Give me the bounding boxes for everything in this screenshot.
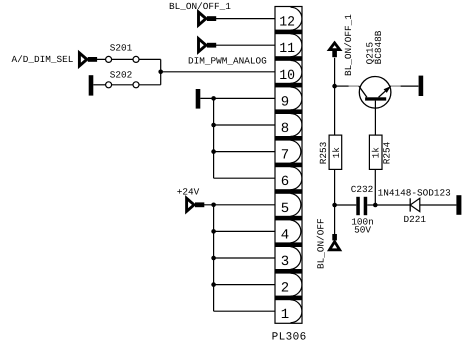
connector pin 3 <box>291 247 301 270</box>
connector pin 1 <box>291 300 302 323</box>
node junction pin7 <box>211 149 216 154</box>
node junction pin3 <box>211 256 216 261</box>
wire <box>334 58 336 86</box>
port arrow BL_ON/OFF_1 (up) <box>330 43 340 50</box>
wire <box>420 204 457 206</box>
svg-text:R254: R254 <box>381 141 392 164</box>
wire base <box>374 101 376 136</box>
rail bar emitter <box>419 76 424 96</box>
svg-text:1: 1 <box>281 307 289 323</box>
wire <box>208 18 275 20</box>
rail bar S202 <box>89 75 94 95</box>
svg-text:BL_ON/OFF_1: BL_ON/OFF_1 <box>343 14 354 76</box>
connector pin 2 <box>291 273 302 296</box>
node junction pin4 <box>211 229 216 234</box>
svg-text:R253: R253 <box>318 141 329 164</box>
wire <box>374 169 376 205</box>
wire <box>334 169 336 205</box>
node junction pin2 <box>211 282 216 287</box>
wire <box>214 284 275 286</box>
node junction to pin10 <box>158 70 163 75</box>
port arrow BL_ON/OFF_1 <box>199 12 207 25</box>
wire <box>335 85 349 87</box>
wire <box>93 84 105 86</box>
port arrow +24V <box>187 198 195 211</box>
rail bar near pin9 <box>196 89 201 109</box>
wire bus <box>213 205 215 311</box>
svg-text:S202: S202 <box>110 70 133 81</box>
wire emitter (gray segment) <box>391 85 401 87</box>
wire <box>334 86 336 135</box>
connector PL306 body <box>275 7 302 324</box>
svg-text:1k: 1k <box>370 147 381 159</box>
wire <box>334 205 336 234</box>
resistor R254 <box>369 135 382 169</box>
node junction pin5 <box>211 203 216 208</box>
wire <box>375 204 410 206</box>
svg-text:PL306: PL306 <box>272 332 307 344</box>
svg-text:11: 11 <box>279 41 295 57</box>
diode D221 <box>409 198 411 211</box>
svg-text:50V: 50V <box>354 224 371 235</box>
svg-text:6: 6 <box>281 174 289 190</box>
svg-text:4: 4 <box>281 227 289 243</box>
svg-text:9: 9 <box>281 94 289 110</box>
node junction C232 right <box>373 203 378 208</box>
rail bar diode <box>456 195 461 215</box>
connector pin 11 <box>291 34 302 57</box>
wire <box>196 204 275 206</box>
wire <box>200 97 275 99</box>
wire to pin1 <box>214 310 275 312</box>
resistor R253 <box>329 135 342 169</box>
svg-text:2: 2 <box>281 281 289 297</box>
svg-text:5: 5 <box>281 201 289 217</box>
capacitor C232 <box>356 197 360 215</box>
svg-text:BL_ON/OFF_1: BL_ON/OFF_1 <box>169 1 231 12</box>
wire <box>139 58 161 60</box>
connector pin 7 <box>291 140 301 163</box>
port arrow BL_ON/OFF (sink) <box>332 234 337 240</box>
svg-text:+24V: +24V <box>177 186 200 197</box>
node junction base drive <box>332 84 337 89</box>
wire <box>161 71 275 73</box>
connector pin 8 <box>291 114 302 137</box>
svg-text:3: 3 <box>281 254 289 270</box>
wire bus <box>213 98 215 178</box>
port arrow A/D_DIM_SEL <box>79 53 87 66</box>
svg-text:S201: S201 <box>110 42 133 53</box>
svg-text:12: 12 <box>279 15 295 31</box>
svg-text:BC848B: BC848B <box>373 30 384 64</box>
node junction C232 left <box>332 203 337 208</box>
wire <box>208 44 275 46</box>
wire to pin6 <box>214 177 275 179</box>
switch S202 <box>106 82 112 88</box>
node bus junction pin9 <box>211 96 216 101</box>
connector pin 4 <box>291 220 301 243</box>
svg-text:1k: 1k <box>331 147 342 159</box>
wire <box>335 204 357 206</box>
wire <box>367 204 375 206</box>
wire emitter <box>401 85 419 87</box>
connector pin 6 <box>291 167 302 190</box>
wire <box>214 230 275 232</box>
wire (gray segment) <box>349 85 360 87</box>
connector pin 10 <box>291 60 302 83</box>
transistor Q215 <box>359 77 391 109</box>
connector pin 12 <box>291 7 302 30</box>
node junction pin8 <box>211 123 216 128</box>
wire <box>89 58 106 60</box>
svg-text:C232: C232 <box>351 184 374 195</box>
svg-text:A/D_DIM_SEL: A/D_DIM_SEL <box>12 54 74 65</box>
svg-text:10: 10 <box>279 68 295 84</box>
wire <box>214 151 275 153</box>
svg-text:1N4148-SOD123: 1N4148-SOD123 <box>378 187 452 198</box>
wire <box>214 124 275 126</box>
svg-text:BL_ON/OFF: BL_ON/OFF <box>315 218 326 269</box>
connector pin 9 <box>291 87 302 110</box>
svg-text:D221: D221 <box>404 214 427 225</box>
svg-text:8: 8 <box>281 121 289 137</box>
connector pin 5 <box>291 193 301 216</box>
port arrow DIM_PWM_ANALOG <box>199 39 207 52</box>
wire <box>139 84 161 86</box>
svg-text:DIM_PWM_ANALOG: DIM_PWM_ANALOG <box>188 55 267 66</box>
svg-text:7: 7 <box>281 148 289 164</box>
switch S201 <box>106 56 112 62</box>
wire <box>214 257 275 259</box>
